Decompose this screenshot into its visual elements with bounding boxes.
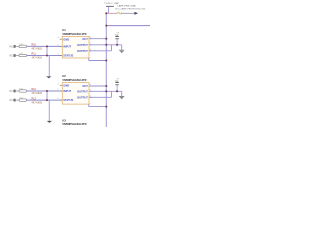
svg-text:C9: C9 — [117, 79, 119, 81]
svg-text:IN 3: IN 3 — [9, 90, 14, 93]
svg-text:R12: R12 — [32, 88, 37, 91]
svg-text:4K7-0603: 4K7-0603 — [32, 48, 43, 51]
svg-text:R11: R11 — [32, 53, 37, 56]
svg-text:IN 2: IN 2 — [9, 55, 14, 58]
svg-text:R10: R10 — [32, 44, 37, 47]
svg-text:4K7-0603: 4K7-0603 — [32, 92, 43, 95]
svg-text:R13: R13 — [32, 97, 37, 100]
svg-text:4K7-0603: 4K7-0603 — [32, 57, 43, 60]
svg-text:4K7-0603: 4K7-0603 — [32, 101, 43, 104]
svg-text:C8: C8 — [117, 33, 119, 35]
svg-text:IN 4: IN 4 — [9, 99, 14, 102]
svg-text:IN 1: IN 1 — [9, 45, 14, 48]
